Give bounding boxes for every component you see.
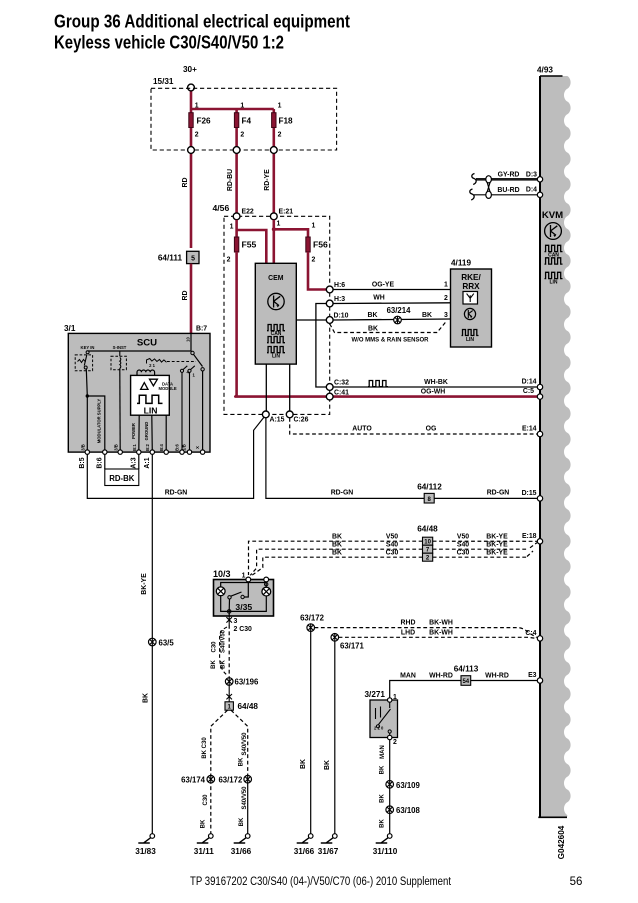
connector 64/48 pin 10 [423, 537, 433, 546]
wire RD-GN B:5 to A:15 [87, 417, 264, 499]
svg-text:KEY IN: KEY IN [81, 345, 95, 350]
splice 63/172b [244, 775, 252, 783]
splice 63/172 top [307, 624, 315, 632]
KVM LIN symbol [545, 272, 563, 278]
svg-text:LIN: LIN [144, 406, 158, 416]
svg-text:BK: BK [332, 533, 342, 540]
svg-text:TP 39167202 C30/S40 (04-)/V50/: TP 39167202 C30/S40 (04-)/V50/C70 (06-) … [190, 876, 452, 888]
svg-text:C:5: C:5 [523, 388, 534, 395]
wire 63/172 BK to ground 31/66 [310, 631, 312, 833]
svg-text:C30: C30 [203, 794, 209, 806]
twisted pair symbol [486, 176, 492, 199]
wire 30+ feed [191, 90, 274, 109]
svg-text:C:26: C:26 [294, 417, 309, 424]
svg-text:BK-WH: BK-WH [429, 620, 453, 627]
svg-text:BK-YE: BK-YE [141, 573, 148, 595]
connector 64/111 [158, 251, 199, 263]
node fuse F26 output [188, 147, 195, 154]
10/3 lamp left [216, 587, 225, 596]
svg-text:MODULE: MODULE [159, 386, 177, 391]
svg-text:H:6: H:6 [334, 282, 345, 289]
connector 64/112 [417, 483, 442, 504]
node C:26 [286, 411, 293, 418]
wire BU-RD to D:4 [474, 194, 537, 196]
svg-text:A:1: A:1 [144, 457, 151, 468]
svg-text:64/111: 64/111 [158, 254, 183, 263]
svg-text:31/66: 31/66 [294, 847, 315, 856]
svg-text:GY-RD: GY-RD [498, 172, 520, 179]
svg-text:2 1 0: 2 1 0 [374, 726, 384, 731]
svg-text:E22: E22 [242, 209, 254, 216]
svg-text:WH-BK: WH-BK [424, 379, 448, 386]
node 30+ [188, 84, 195, 91]
svg-text:1: 1 [242, 573, 246, 580]
svg-text:BK: BK [211, 660, 217, 669]
svg-text:S40/V50: S40/V50 [242, 732, 248, 756]
wire KEY IN to B:5/B:6 [86, 369, 105, 452]
svg-text:B:2: B:2 [145, 443, 150, 450]
wire E:21 to F56 and CEM [274, 220, 308, 264]
RKE LIN symbol [462, 330, 479, 336]
SCU LIN module white box [131, 370, 177, 415]
svg-text:S40: S40 [457, 541, 469, 548]
svg-text:V50: V50 [457, 533, 469, 540]
wire fuse column F18 [272, 109, 275, 216]
wire BK S40 row (dashed) [250, 543, 537, 576]
svg-text:BK-YE: BK-YE [486, 549, 508, 556]
KVM CAN symbol [545, 245, 563, 251]
svg-text:1: 1 [444, 282, 448, 289]
node H:3 [326, 300, 333, 307]
svg-text:1: 1 [312, 223, 316, 230]
wire to 64/48 inline [226, 685, 232, 702]
svg-text:63/108: 63/108 [396, 806, 421, 815]
svg-text:1: 1 [393, 694, 397, 701]
svg-text:C:32: C:32 [334, 380, 349, 387]
svg-text:1: 1 [230, 224, 234, 231]
svg-text:RD: RD [182, 178, 189, 188]
wire S-INST down [119, 368, 121, 452]
10/3 pin 3 bottom with connector cross [226, 616, 232, 625]
fuse F55 [234, 237, 238, 252]
svg-text:31/66: 31/66 [231, 847, 252, 856]
svg-text:BK: BK [380, 794, 386, 803]
svg-text:1: 1 [195, 103, 199, 110]
wire OG-YE H:6 to RKE pin 1 [333, 289, 450, 291]
connector 64/48 inline pin 1 [225, 702, 258, 711]
svg-text:E:14: E:14 [522, 426, 537, 433]
svg-text:W/O MMS & RAIN SENSOR: W/O MMS & RAIN SENSOR [351, 338, 429, 344]
SCU bottom pins [85, 450, 89, 454]
svg-text:RD-BK: RD-BK [109, 474, 134, 483]
svg-text:C:41: C:41 [334, 390, 349, 397]
svg-text:10: 10 [186, 337, 191, 342]
svg-text:WH: WH [373, 295, 385, 302]
wire BK alternative w/o MMS (dashed) [330, 321, 447, 333]
svg-text:D:14: D:14 [522, 379, 537, 386]
KVM bar pins [537, 177, 542, 182]
3/271 switch symbol [376, 702, 391, 724]
svg-text:31/11: 31/11 [194, 847, 214, 856]
fuse F4 [234, 113, 238, 128]
svg-text:2: 2 [312, 257, 316, 264]
wire BK S40/V50 to 31/66 [231, 710, 248, 775]
CEM module box [255, 263, 296, 364]
svg-text:64/48: 64/48 [238, 702, 259, 711]
svg-text:63/109: 63/109 [396, 781, 421, 790]
wire BK S40/V50 (right, dashed) [228, 625, 230, 678]
wire MAN WH-RD 3/271 to E3 [390, 681, 540, 698]
svg-text:64/48: 64/48 [417, 525, 438, 534]
KVM K symbol [545, 223, 562, 240]
svg-text:4/56: 4/56 [213, 203, 230, 213]
svg-text:2 1: 2 1 [149, 363, 155, 368]
svg-text:B:4: B:4 [159, 443, 164, 450]
svg-text:63/172: 63/172 [300, 614, 325, 623]
wire 63/171 BK to ground 31/67 [334, 641, 336, 834]
svg-text:E3: E3 [528, 672, 537, 679]
svg-text:2: 2 [227, 257, 231, 264]
svg-text:54: 54 [462, 679, 469, 685]
svg-text:BK: BK [324, 760, 331, 770]
svg-text:C:4: C:4 [525, 630, 536, 637]
svg-text:KVM: KVM [542, 210, 563, 221]
svg-text:BK: BK [368, 326, 378, 333]
svg-text:63/196: 63/196 [235, 678, 260, 687]
wire BK C30 (left, dashed) [220, 627, 228, 676]
wires LIN box to pins [139, 415, 166, 452]
svg-text:RKE/: RKE/ [461, 273, 481, 282]
10/3 lamp right [262, 587, 271, 596]
svg-text:BK: BK [380, 765, 386, 774]
svg-text:F26: F26 [197, 117, 212, 126]
svg-text:A:3: A:3 [131, 457, 138, 468]
svg-text:LIN: LIN [272, 354, 280, 360]
svg-text:15/31: 15/31 [153, 77, 174, 86]
svg-text:BK: BK [143, 693, 150, 703]
svg-text:56: 56 [570, 876, 583, 888]
svg-text:BK-YE: BK-YE [486, 541, 508, 548]
svg-text:E:18: E:18 [522, 533, 537, 540]
svg-text:D:4: D:4 [526, 187, 537, 194]
wire GY-RD to D:3 [476, 178, 537, 181]
svg-text:3/B: 3/B [114, 444, 119, 451]
svg-text:SCU: SCU [137, 338, 157, 349]
svg-text:BK: BK [332, 549, 342, 556]
splice 63/174 [207, 775, 215, 783]
svg-text:MAN: MAN [400, 673, 416, 680]
svg-text:RD-GN: RD-GN [487, 490, 510, 497]
wire BK V50 row (dashed) [249, 541, 538, 575]
svg-text:63/171: 63/171 [340, 642, 365, 651]
svg-text:H:3: H:3 [334, 296, 345, 303]
splice 63/171 [331, 634, 339, 642]
svg-text:X: X [195, 446, 200, 449]
svg-text:31/83: 31/83 [135, 847, 156, 856]
svg-text:BK: BK [300, 759, 307, 769]
svg-text:3/271: 3/271 [365, 690, 386, 699]
svg-text:31/110: 31/110 [373, 847, 398, 856]
svg-text:BK: BK [380, 819, 386, 828]
KVM bar 4/93 [540, 76, 571, 817]
wire CEM to D:10 [296, 319, 329, 321]
svg-text:4/93: 4/93 [537, 66, 553, 75]
svg-text:64/112: 64/112 [417, 483, 442, 492]
svg-text:CEM: CEM [268, 275, 284, 282]
wire BK D:10 to RKE pin 3 [333, 319, 450, 320]
node E22 [233, 213, 240, 220]
fusebox 15/31 dashed box [151, 88, 337, 150]
SCU position sensor [147, 359, 167, 364]
svg-text:F4: F4 [242, 117, 252, 126]
ground 31/11 [194, 834, 214, 856]
svg-text:MODULATOR SUPPLY: MODULATOR SUPPLY [96, 399, 101, 444]
svg-text:RD: RD [182, 291, 189, 301]
splice 63/5 [149, 638, 157, 646]
svg-text:BK: BK [238, 757, 244, 766]
svg-text:A:15: A:15 [270, 417, 285, 424]
continuation hooks [470, 174, 476, 201]
svg-text:63/214: 63/214 [387, 306, 412, 315]
wire SCU internal bus [88, 333, 191, 351]
splice 63/196 [225, 678, 233, 686]
wire BK C30 to 31/11 (dashed) [211, 710, 228, 834]
ground 31/66 mid [294, 834, 315, 856]
svg-text:GROUND: GROUND [144, 422, 149, 441]
svg-text:B:5: B:5 [79, 457, 86, 468]
ground 31/67 [318, 834, 339, 856]
node fuse F4 output [233, 147, 240, 154]
ground 31/66 left [231, 834, 252, 856]
svg-text:3: 3 [234, 618, 238, 625]
node A:15 [262, 411, 269, 418]
wire CEM bottom to C:26 [289, 364, 291, 414]
svg-text:V50: V50 [386, 533, 398, 540]
svg-text:D:15: D:15 [522, 490, 537, 497]
svg-text:63/5: 63/5 [159, 639, 175, 648]
wire RD-GN A:15 to D:15 [266, 418, 540, 499]
svg-text:1: 1 [277, 221, 281, 228]
svg-text:BK C30: BK C30 [202, 737, 208, 759]
svg-text:S40: S40 [386, 541, 398, 548]
svg-text:WH-RD: WH-RD [429, 673, 453, 680]
node D:10 [326, 317, 333, 324]
node H:6 [326, 286, 333, 293]
connector 64/48 pin 2 [423, 553, 433, 562]
RKE antenna symbol [463, 292, 478, 305]
svg-text:5: 5 [191, 256, 195, 263]
svg-text:RRX: RRX [462, 282, 480, 291]
module 10/3 [213, 569, 274, 616]
svg-text:S40/V50: S40/V50 [220, 629, 226, 653]
svg-text:E:21: E:21 [279, 209, 294, 216]
svg-text:S40/V50: S40/V50 [242, 786, 248, 810]
svg-text:RD-YE: RD-YE [264, 169, 271, 191]
svg-text:MAN: MAN [380, 745, 386, 759]
svg-text:1: 1 [278, 103, 282, 110]
svg-text:S-INST: S-INST [113, 345, 127, 350]
svg-text:F18: F18 [279, 117, 294, 126]
svg-text:OG-YE: OG-YE [372, 282, 395, 289]
fuse F56 [306, 237, 310, 252]
wire RD to SCU B:7 [190, 264, 193, 334]
wire WH-BK C:32 to D:14 [333, 386, 539, 388]
wire H:3 to C:32 internal [316, 304, 330, 388]
svg-text:F56: F56 [313, 240, 328, 250]
wire WH H:3 to RKE pin 2 [333, 302, 450, 305]
svg-text:Keyless vehicle C30/S40/V50 1:: Keyless vehicle C30/S40/V50 1:2 [54, 33, 284, 53]
svg-text:BK-WH: BK-WH [429, 629, 453, 636]
10/3 pins top [246, 577, 251, 582]
node E:21 [270, 213, 277, 220]
wire AUTO OG dashed C:26 to E:14 [290, 418, 540, 434]
svg-text:B:6: B:6 [97, 457, 104, 468]
10/3 switch [241, 595, 244, 598]
mechanical link dashed [167, 361, 196, 363]
wire-label box RD-BK [105, 469, 139, 486]
svg-text:D:3: D:3 [526, 172, 537, 179]
CEM assembly dashed box 4/56 [224, 216, 330, 414]
svg-text:2: 2 [278, 132, 282, 139]
connector 64/48 pin 7 [423, 545, 433, 554]
svg-text:C30: C30 [212, 641, 218, 653]
wire CEM bottom to A:15 [265, 364, 267, 414]
wire E22 to F55 and CEM [237, 220, 267, 264]
svg-text:C30: C30 [457, 549, 470, 556]
svg-text:BK: BK [239, 817, 245, 826]
svg-text:1: 1 [240, 103, 244, 110]
CEM CAN symbol [267, 325, 285, 331]
svg-text:2 C30: 2 C30 [234, 626, 253, 633]
wire BK C30 row (dashed) [252, 551, 534, 576]
svg-text:POWER: POWER [131, 423, 136, 439]
fuse F26 [189, 113, 193, 128]
wire F56 to H:6 [308, 252, 330, 290]
svg-text:RD-GN: RD-GN [331, 490, 354, 497]
wire A:1 BK-YE/BK to ground 31/83 [151, 454, 153, 833]
module 4/119 RKE/RRX [451, 259, 492, 348]
wire F55 to C:41/C:5 (maroon power) [235, 252, 539, 397]
svg-text:Group 36 Additional electrical: Group 36 Additional electrical equipment [54, 12, 350, 32]
wire RHD BK-WH dashed to C:4 [315, 628, 537, 638]
svg-text:63/172: 63/172 [218, 776, 243, 785]
splice 63/214 [394, 316, 402, 324]
svg-text:C30: C30 [386, 549, 399, 556]
module SCU 3/1 [68, 333, 210, 452]
splice 63/108 [386, 806, 394, 814]
svg-text:OG: OG [426, 426, 437, 433]
wire fuse column F26 [190, 109, 193, 248]
svg-text:RD-GN: RD-GN [165, 490, 188, 497]
wire B:6 and A:3 into RD-BK [105, 454, 139, 469]
svg-text:3: 3 [444, 312, 448, 319]
node C:41 (on maroon wire) [326, 393, 333, 400]
svg-text:3/35: 3/35 [235, 602, 252, 612]
svg-text:4/119: 4/119 [451, 259, 471, 268]
svg-text:D:10: D:10 [334, 313, 349, 320]
RKE K symbol [464, 308, 475, 319]
svg-text:2: 2 [195, 132, 199, 139]
10/3 internal wiring [221, 580, 267, 617]
svg-text:LHD: LHD [401, 629, 415, 636]
ground 31/110 [373, 834, 398, 856]
ground 31/83 [135, 834, 156, 856]
svg-text:B:6: B:6 [174, 443, 179, 450]
svg-text:B:7: B:7 [196, 326, 207, 333]
wire LHD BK-WH dashed to C:4 [339, 637, 537, 638]
svg-text:BK: BK [368, 312, 378, 319]
SCU switch a [180, 369, 183, 372]
svg-text:2: 2 [444, 295, 448, 302]
svg-text:3/B: 3/B [81, 444, 86, 451]
svg-text:63/174: 63/174 [181, 776, 206, 785]
svg-text:31/67: 31/67 [318, 847, 339, 856]
CEM K symbol [268, 293, 284, 309]
svg-text:3/1: 3/1 [64, 324, 76, 333]
svg-text:10/3: 10/3 [213, 569, 231, 579]
svg-text:2: 2 [393, 739, 397, 746]
svg-text:WH-RD: WH-RD [485, 673, 509, 680]
CEM LIN symbol [267, 347, 285, 353]
module 3/271 [365, 690, 398, 738]
svg-text:OG-WH: OG-WH [421, 389, 446, 396]
SCU main switch [191, 351, 194, 354]
svg-text:BK: BK [220, 660, 226, 669]
svg-text:B:1: B:1 [132, 443, 137, 450]
svg-text:BU-RD: BU-RD [497, 187, 519, 194]
svg-text:G042604: G042604 [557, 825, 566, 859]
wire fuse column F4 [235, 109, 238, 216]
svg-text:BK: BK [332, 541, 342, 548]
splice 63/109 [386, 781, 394, 789]
svg-text:64/113: 64/113 [454, 665, 479, 674]
wire MAN BK to ground 31/110 [389, 740, 391, 834]
node C:32 [326, 384, 333, 391]
svg-text:30+: 30+ [183, 65, 197, 74]
svg-text:LIN: LIN [549, 280, 557, 286]
svg-text:RD-BU: RD-BU [227, 169, 234, 191]
svg-text:F55: F55 [242, 240, 257, 250]
svg-text:RHD: RHD [401, 620, 416, 627]
svg-text:BK: BK [201, 819, 207, 828]
svg-text:BK: BK [422, 312, 432, 319]
SCU switch b [188, 369, 191, 372]
node fuse F18 output [270, 147, 277, 154]
fuse F18 [272, 113, 276, 128]
svg-text:BK-YE: BK-YE [486, 533, 508, 540]
connector 64/113 [454, 665, 479, 686]
svg-text:AUTO: AUTO [352, 426, 372, 433]
svg-text:2: 2 [240, 132, 244, 139]
svg-text:LIN: LIN [466, 337, 474, 343]
